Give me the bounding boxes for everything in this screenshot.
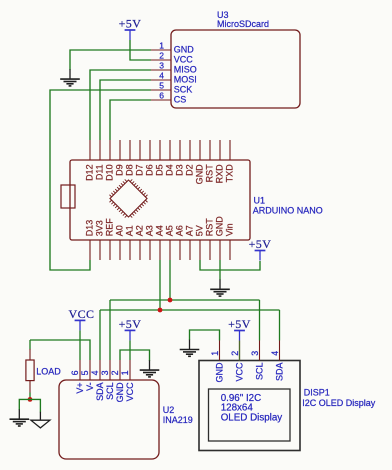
wire +5V to DISP1 VCC: [239, 341, 241, 361]
svg-text:Vin: Vin: [225, 223, 235, 236]
svg-text:DISP1: DISP1: [304, 388, 330, 398]
svg-text:ARDUINO NANO: ARDUINO NANO: [253, 205, 323, 215]
svg-text:CS: CS: [174, 95, 187, 105]
wire A5 SCL drop: [169, 260, 171, 300]
wire SCK U3 pin5 to D13: [50, 90, 151, 270]
U1 bottom pin Vin: [225, 223, 235, 260]
svg-text:D2: D2: [185, 164, 195, 176]
svg-text:D13: D13: [85, 220, 95, 237]
svg-text:2: 2: [159, 50, 164, 60]
svg-text:GND: GND: [174, 45, 195, 55]
DISP1 OLED outer body: [199, 361, 300, 451]
svg-text:2: 2: [110, 370, 120, 375]
svg-text:+5V: +5V: [119, 317, 142, 331]
DISP1 pin 3 SCL: [250, 341, 264, 381]
U1 bottom pin A0: [115, 225, 125, 260]
svg-text:GND: GND: [195, 164, 205, 185]
svg-text:A6: A6: [175, 225, 185, 236]
svg-text:I2C OLED Display: I2C OLED Display: [302, 398, 376, 408]
wire SDA bus: [100, 309, 280, 311]
wire +5V to U2 VCC: [129, 340, 131, 360]
U3 pin 1 GND: [151, 40, 194, 54]
svg-text:D5: D5: [155, 164, 165, 176]
svg-text:TXD: TXD: [225, 164, 235, 183]
junction A5/SCL: [168, 298, 173, 303]
U3 pin 6 CS: [151, 90, 186, 104]
svg-text:RST: RST: [205, 218, 215, 237]
svg-text:OLED Display: OLED Display: [221, 412, 283, 423]
svg-text:SCK: SCK: [174, 85, 193, 95]
U1 top pin D11: [95, 140, 105, 180]
wire CS U3 pin6 to D10: [110, 100, 151, 140]
U1 bottom pin A2: [135, 225, 145, 260]
svg-text:3: 3: [159, 60, 164, 70]
U1 bottom pin A1: [125, 225, 135, 260]
svg-text:D4: D4: [165, 164, 175, 176]
ground (nano GND): [210, 280, 230, 297]
DISP1 pin 4 SDA: [270, 341, 284, 382]
svg-text:2: 2: [230, 351, 240, 356]
U1 bottom pin RST: [205, 218, 215, 260]
svg-text:+5V: +5V: [119, 17, 142, 31]
U1 top pin D12: [85, 140, 95, 181]
svg-text:U1: U1: [254, 196, 266, 206]
U1 bottom pin A7: [185, 225, 195, 260]
svg-text:A3: A3: [145, 225, 155, 236]
svg-text:A1: A1: [125, 225, 135, 236]
svg-text:MISO: MISO: [174, 65, 197, 75]
wire SCL bus: [110, 299, 260, 301]
svg-text:D10: D10: [105, 164, 115, 181]
ground (earth, bottom left): [10, 409, 30, 426]
DISP1 OLED screen inner rect: [209, 389, 291, 441]
svg-text:D6: D6: [145, 164, 155, 176]
U1 chip glyph (rotated QFP): [106, 176, 152, 222]
svg-text:3: 3: [100, 370, 110, 375]
svg-text:SDA: SDA: [274, 363, 284, 382]
U1 bottom pin 3V3: [95, 220, 105, 260]
wire LOAD top stub: [29, 340, 31, 350]
wire SCL drop to DISP1: [259, 300, 261, 341]
svg-text:D7: D7: [135, 164, 145, 176]
U3 MicroSDcard symbol body: [171, 30, 300, 108]
U1 top pin D8: [125, 140, 135, 176]
svg-text:VCC: VCC: [234, 362, 244, 382]
ground (triangle chassis): [31, 420, 50, 428]
svg-text:LOAD: LOAD: [36, 367, 61, 377]
svg-text:SDA: SDA: [95, 382, 105, 401]
U1 top pin GND: [195, 140, 205, 184]
svg-text:5V: 5V: [195, 225, 205, 236]
DISP1 pin 1 GND: [210, 341, 224, 383]
svg-text:1: 1: [159, 40, 164, 50]
ground (OLED GND): [180, 340, 200, 357]
svg-text:4: 4: [90, 370, 100, 375]
svg-text:D12: D12: [85, 164, 95, 181]
U1 top pin D5: [155, 140, 165, 176]
svg-text:SCL: SCL: [105, 382, 115, 400]
svg-text:D3: D3: [175, 164, 185, 176]
wire VCC to INA219 V+: [79, 330, 81, 360]
svg-text:VCC: VCC: [174, 55, 194, 65]
U1 top pin RST: [205, 140, 215, 182]
U1 top pin D9: [115, 140, 125, 176]
power flag +5V (top, SD VCC): [119, 17, 142, 41]
wire nano GND to ground: [219, 260, 221, 280]
U1 top pin D6: [145, 140, 155, 176]
U1 ARDUINO NANO symbol body: [70, 160, 250, 240]
svg-text:MOSI: MOSI: [174, 75, 197, 85]
wire MOSI U3 pin4 to D11: [100, 80, 151, 140]
svg-text:D9: D9: [115, 164, 125, 176]
resistor LOAD: [26, 349, 34, 393]
U2 pin 5 V-: [80, 360, 95, 391]
wire LOAD bottom to junction: [29, 393, 31, 400]
wire junction to earth ground: [19, 399, 30, 410]
svg-text:4: 4: [270, 351, 280, 356]
svg-text:GND: GND: [215, 216, 225, 237]
wire LOAD top to INA219 V-: [30, 340, 90, 360]
U2 pin 3 SCL: [100, 360, 115, 400]
U1 top pin D2: [185, 140, 195, 176]
ground (INA219 GND): [140, 360, 160, 377]
svg-text:VCC: VCC: [68, 307, 94, 321]
svg-text:6: 6: [70, 370, 80, 375]
U3 pin 3 MISO: [151, 60, 197, 74]
U1 bottom pin D13: [85, 220, 95, 260]
svg-text:INA219: INA219: [163, 415, 193, 425]
power flag +5V (OLED VCC): [228, 317, 251, 341]
U1 top pin TXD: [225, 140, 235, 182]
svg-text:A7: A7: [185, 225, 195, 236]
svg-text:GND: GND: [214, 362, 224, 383]
U3 pin 4 MOSI: [151, 70, 197, 84]
svg-text:3V3: 3V3: [95, 220, 105, 236]
wire 5V to +5V flag: [200, 260, 260, 270]
U3 pin 5 SCK: [151, 80, 192, 94]
U1 top pin D4: [165, 140, 175, 176]
U1 bottom pin GND: [215, 216, 225, 260]
svg-text:VCC: VCC: [125, 382, 135, 402]
U1 bottom pin REF: [105, 218, 115, 260]
wire junction to chassis ground: [30, 399, 40, 412]
U2 pin 6 V+: [70, 360, 85, 394]
power flag +5V (nano 5V): [249, 237, 272, 261]
U2 pin 4 SDA: [90, 360, 105, 401]
svg-text:+5V: +5V: [249, 237, 272, 251]
U1 USB connector tab: [61, 185, 75, 208]
wire U3 GND pin1 to ground: [70, 50, 151, 70]
U1 top pin D10: [105, 140, 115, 181]
U2 INA219 symbol body: [59, 380, 159, 459]
wire U2 GND to ground: [120, 350, 150, 361]
wire SCL left drop to INA219: [109, 300, 111, 360]
svg-text:V-: V-: [85, 382, 95, 391]
svg-text:1: 1: [120, 370, 130, 375]
svg-text:RXD: RXD: [215, 164, 225, 184]
junction LOAD/grounds: [28, 397, 33, 402]
wire SDA left drop to INA219: [99, 310, 101, 360]
svg-text:A4: A4: [155, 225, 165, 236]
svg-text:RST: RST: [205, 164, 215, 183]
junction A4/SDA: [158, 308, 163, 313]
U1 bottom pin A4: [155, 225, 165, 260]
svg-text:D8: D8: [125, 164, 135, 176]
svg-text:MicroSDcard: MicroSDcard: [217, 19, 269, 29]
svg-text:3: 3: [250, 351, 260, 356]
svg-text:A0: A0: [115, 225, 125, 236]
U1 top pin RXD: [215, 140, 225, 183]
svg-text:5: 5: [159, 80, 164, 90]
svg-text:1: 1: [210, 351, 220, 356]
U2 pin 1 VCC: [120, 360, 135, 401]
svg-text:A2: A2: [135, 225, 145, 236]
wire +5V to U3 VCC pin2: [130, 40, 151, 60]
svg-text:SCL: SCL: [254, 363, 264, 381]
svg-text:REF: REF: [105, 218, 115, 237]
svg-text:A5: A5: [165, 225, 175, 236]
wire A4 SDA drop: [159, 260, 161, 310]
svg-text:6: 6: [159, 90, 164, 100]
svg-text:GND: GND: [115, 382, 125, 403]
U1 bottom pin A6: [175, 225, 185, 260]
svg-text:+5V: +5V: [228, 317, 251, 331]
U1 top pin D7: [135, 140, 145, 176]
U1 top pin D3: [175, 140, 185, 176]
DISP1 screen text: [221, 393, 283, 424]
wire MISO U3 pin3 to D12: [90, 70, 151, 140]
power flag +5V (INA219 VCC): [119, 317, 142, 341]
U3 pin 2 VCC: [151, 50, 193, 64]
U1 bottom pin 5V: [195, 225, 205, 260]
U1 bottom pin A5: [165, 225, 175, 260]
power flag VCC: [68, 307, 94, 331]
wire SDA drop to DISP1: [279, 310, 281, 341]
U1 bottom pin A3: [145, 225, 155, 260]
U2 pin 2 GND: [110, 360, 125, 402]
svg-text:U2: U2: [163, 405, 175, 415]
ground (top left): [60, 69, 80, 86]
DISP1 pin 2 VCC: [230, 341, 244, 382]
wire DISP1 GND to ground: [190, 330, 220, 341]
svg-text:5: 5: [80, 370, 90, 375]
svg-text:V+: V+: [75, 382, 85, 393]
svg-text:D11: D11: [95, 164, 105, 180]
svg-text:4: 4: [159, 70, 164, 80]
